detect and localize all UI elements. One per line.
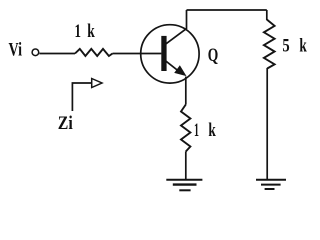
input terminal (open circle) xyxy=(32,49,39,56)
wire emitter down xyxy=(185,77,187,105)
resistor R1 (1 k) zigzag xyxy=(75,49,113,56)
svg-text:1: 1 xyxy=(75,21,82,42)
ground right xyxy=(256,180,286,189)
resistor R2 (5 k) zigzag xyxy=(264,20,275,69)
svg-text:Zi: Zi xyxy=(58,113,73,134)
transistor Q circle xyxy=(141,25,199,83)
wire R2 to ground xyxy=(266,68,268,180)
Zi arrowhead (open) xyxy=(92,79,102,88)
wire collector top horizontal xyxy=(187,9,267,11)
wire input to R1 xyxy=(39,53,75,55)
svg-text:k: k xyxy=(87,21,95,42)
Zi impedance arrow xyxy=(72,83,92,111)
transistor Q emitter lead with arrow xyxy=(166,61,181,73)
transistor Q collector lead xyxy=(166,10,187,44)
svg-text:k: k xyxy=(299,36,307,57)
svg-text:Vi: Vi xyxy=(9,40,23,61)
svg-text:1: 1 xyxy=(194,120,199,141)
svg-text:k: k xyxy=(208,120,216,141)
wire R3 to ground xyxy=(185,152,187,180)
emitter arrowhead xyxy=(175,66,185,75)
svg-text:5: 5 xyxy=(282,36,289,57)
wire top right riser xyxy=(266,10,268,20)
svg-text:Q: Q xyxy=(208,45,219,66)
resistor R3 (1 k) zigzag xyxy=(181,105,190,152)
transistor Q base bar xyxy=(161,36,166,71)
ground left xyxy=(166,180,202,191)
wire R1 to base xyxy=(113,53,162,55)
